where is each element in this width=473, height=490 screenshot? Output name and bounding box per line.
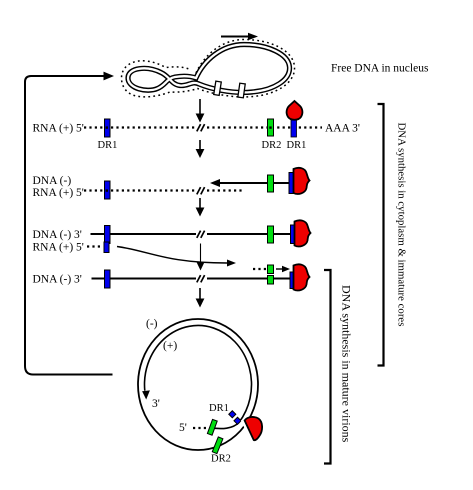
dotted halo around rcDNA [122,40,295,97]
svg-text:DR1: DR1 [98,140,118,151]
row3 break slashes [197,231,205,238]
arrow row4 to circle [196,288,205,308]
arrow rcDNA to row1 [196,99,205,123]
dot overlay on row1 DR1 tick [106,126,108,128]
svg-text:DNA (-) 3': DNA (-) 3' [33,274,82,286]
row2 RNA dotted line [84,189,242,191]
svg-text:Free DNA in nucleus: Free DNA in nucleus [331,63,429,75]
row2 polymerase bar [289,173,294,194]
svg-text:RNA (+) 5': RNA (+) 5' [33,242,84,254]
cccDNA inner arc (plus strand) [145,325,252,428]
row3 minus strand solid line [91,233,291,235]
row3 DR2 tick [268,226,274,243]
svg-text:DNA synthesis in mature virion: DNA synthesis in mature virions [340,285,354,443]
svg-text:DR1: DR1 [287,140,307,151]
cccDNA outer circle (minus strand) [138,319,258,450]
row4 polymerase blob [294,264,310,290]
dot overlay on row2 DR1 tick [106,189,108,191]
circle DR1 diamond 1 [229,411,236,418]
row3 polymerase bar [291,225,296,244]
row2 minus-strand DNA arrow (leftwards) [210,179,291,187]
row1 polymerase blob [287,101,303,120]
arrow row1 to row2 [196,140,205,158]
row4 plus strand arrow [276,266,290,272]
row2 DR1 tick (left) [105,181,111,199]
row4 plus strand dots [253,268,266,270]
svg-text:DR2: DR2 [262,140,282,151]
row2 DR2 tick [268,175,274,192]
bracket: mature virions [324,270,331,464]
row4 polymerase bar [290,272,295,289]
row4 DR1 tick [105,270,111,288]
row1 DR1 tick (left) [105,119,111,137]
inner arc 5' dotted tail [193,427,206,429]
bracket: cytoplasm & immature cores [378,104,384,366]
svg-text:(-): (-) [146,318,158,330]
nick gap 1 on rcDNA [214,81,222,95]
row4 DR2 tick upper [268,265,274,274]
svg-text:RNA (+) 5': RNA (+) 5' [33,123,84,135]
row1 break slashes [197,124,205,131]
row4 break slashes [197,275,205,282]
svg-text:RNA (+) 5': RNA (+) 5' [33,187,84,199]
row2 break slashes [197,187,205,194]
circle 5' green tick [207,419,217,435]
svg-text:DNA synthesis in cytoplasm & i: DNA synthesis in cytoplasm & immature co… [396,123,408,327]
circle DR1 diamond 2 [234,417,241,424]
svg-text:DR1: DR1 [209,403,229,414]
row4 DR2 tick lower [268,276,274,285]
svg-text:(+): (+) [163,340,177,352]
svg-text:5': 5' [179,422,187,434]
primer translocation curved arrow [117,247,236,267]
row3 DR1 tick [105,226,111,244]
inner arc 3' arrowhead [142,390,150,399]
nick gap 2 on rcDNA [238,83,245,98]
dot overlay on row1 DR2 tick [269,126,271,128]
svg-text:AAA 3': AAA 3' [325,123,360,135]
svg-text:DNA (-) 3': DNA (-) 3' [33,229,82,241]
rcDNA twisted loop (free DNA) [128,45,290,93]
arrow row2 to row3 [196,198,205,217]
svg-text:DNA (-): DNA (-) [33,175,72,187]
svg-text:3': 3' [152,398,160,410]
row1 DR2 tick [268,119,274,136]
rotation arrow above rcDNA [221,33,258,40]
circle polymerase blob [245,417,262,440]
white gap under circle polymerase blob [243,420,254,443]
row3 RNA primer DR1 tick [104,242,109,253]
arrow row3 to row4 [197,244,205,271]
feedback loop wire (left recycle path) [25,72,114,375]
row3 RNA primer dots [87,245,102,247]
row2 polymerase blob [294,168,310,194]
row3 polymerase blob [295,220,311,246]
circle DR2 green tick [212,437,223,454]
row4 minus strand solid line [92,278,291,280]
row1 polymerase stick [291,120,297,138]
row1 pregenomic RNA dotted line [84,126,322,128]
svg-text:DR2: DR2 [211,454,231,465]
